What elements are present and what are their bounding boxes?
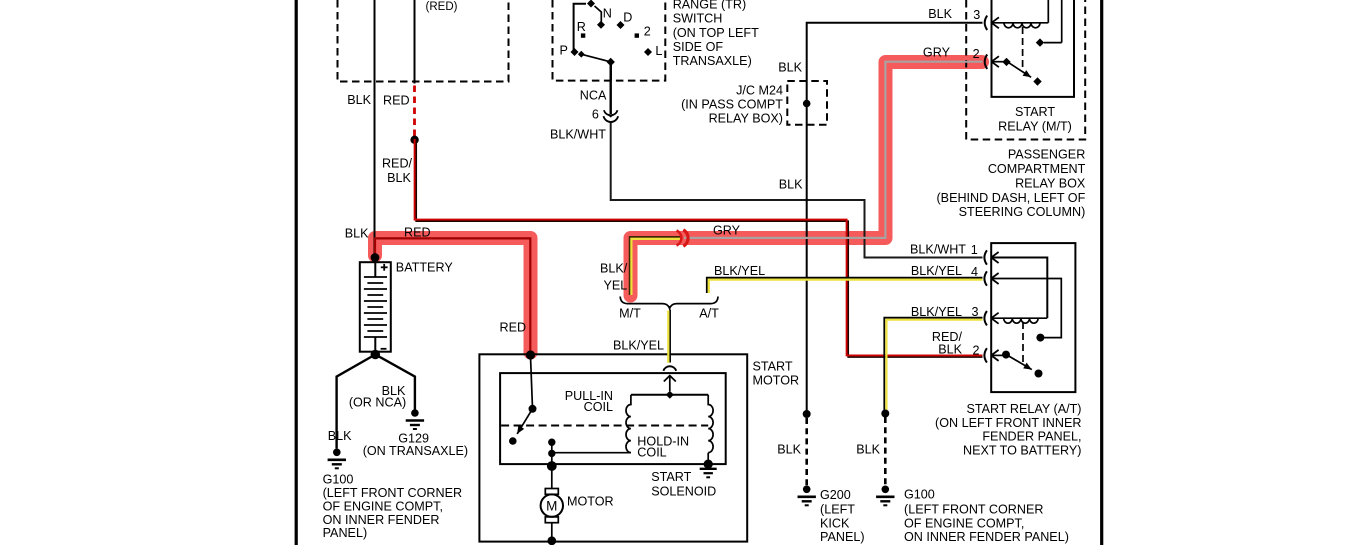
svg-text:RED/: RED/ [382,157,413,171]
svg-text:(ON LEFT FRONT INNER: (ON LEFT FRONT INNER [935,416,1081,430]
svg-text:G200: G200 [820,488,851,502]
svg-text:SOLENOID: SOLENOID [651,485,716,499]
svg-text:OF ENGINE COMPT,: OF ENGINE COMPT, [323,500,443,514]
svg-text:START RELAY (A/T): START RELAY (A/T) [966,402,1081,416]
svg-text:BLK: BLK [387,171,411,185]
svg-text:COMPARTMENT: COMPARTMENT [988,162,1086,176]
svg-text:YEL: YEL [604,279,628,293]
svg-text:R: R [577,20,586,34]
svg-text:RED: RED [404,226,431,240]
svg-text:6: 6 [592,108,599,122]
svg-text:L: L [655,44,662,58]
svg-text:START: START [651,470,691,484]
svg-text:START: START [753,360,793,374]
svg-text:A/T: A/T [699,307,719,321]
svg-text:ON INNER FENDER PANEL): ON INNER FENDER PANEL) [904,530,1069,544]
svg-text:BLK/WHT: BLK/WHT [910,243,966,257]
svg-text:STEERING COLUMN): STEERING COLUMN) [959,205,1086,219]
svg-text:(RED): (RED) [426,1,458,13]
svg-text:ON INNER FENDER: ON INNER FENDER [323,513,440,527]
svg-text:1: 1 [971,243,978,257]
svg-text:FENDER PANEL,: FENDER PANEL, [982,430,1081,444]
svg-text:4: 4 [971,265,978,279]
svg-text:G100: G100 [904,488,935,502]
svg-text:SWITCH: SWITCH [673,12,723,26]
svg-text:2: 2 [644,24,651,38]
svg-text:(IN PASS COMPT: (IN PASS COMPT [681,97,783,111]
svg-text:J/C M24: J/C M24 [736,84,783,98]
svg-text:(ON TOP LEFT: (ON TOP LEFT [673,26,759,40]
svg-text:TRANSAXLE): TRANSAXLE) [673,54,752,68]
svg-text:(LEFT: (LEFT [820,502,855,516]
svg-text:GRY: GRY [713,223,741,237]
svg-text:SIDE OF: SIDE OF [673,40,724,54]
svg-text:PASSENGER: PASSENGER [1008,148,1085,162]
svg-text:COIL: COIL [584,400,613,414]
svg-text:BLK: BLK [856,443,880,457]
svg-text:OF ENGINE COMPT,: OF ENGINE COMPT, [904,516,1024,530]
svg-text:GRY: GRY [923,46,951,60]
svg-text:(ON TRANSAXLE): (ON TRANSAXLE) [363,444,468,458]
svg-text:BLK: BLK [928,7,952,21]
svg-text:RELAY BOX: RELAY BOX [1015,176,1086,190]
svg-text:BLK/YEL: BLK/YEL [714,264,765,278]
svg-text:BLK/YEL: BLK/YEL [613,339,664,353]
svg-text:RED: RED [500,321,527,335]
svg-text:(OR NCA): (OR NCA) [349,395,406,409]
svg-text:BLK: BLK [345,227,369,241]
svg-text:BLK: BLK [777,442,801,456]
svg-text:RELAY (M/T): RELAY (M/T) [998,120,1072,134]
svg-text:COIL: COIL [637,446,666,460]
svg-text:PANEL): PANEL) [323,526,368,540]
svg-text:G100: G100 [323,473,354,487]
svg-text:BLK: BLK [778,60,802,74]
svg-text:3: 3 [973,8,980,22]
svg-text:3: 3 [972,305,979,319]
svg-text:M: M [546,498,557,513]
svg-text:MOTOR: MOTOR [567,494,614,508]
svg-text:BLK: BLK [779,178,803,192]
svg-text:(LEFT FRONT CORNER: (LEFT FRONT CORNER [904,502,1043,516]
svg-text:NCA: NCA [580,89,607,103]
svg-text:BATTERY: BATTERY [396,260,454,274]
svg-text:RANGE (TR): RANGE (TR) [673,0,746,12]
svg-text:D: D [623,11,632,25]
svg-text:BLK/YEL: BLK/YEL [911,305,962,319]
svg-text:KICK: KICK [820,516,850,530]
svg-text:BLK/WHT: BLK/WHT [550,127,606,141]
svg-text:PANEL): PANEL) [820,530,865,544]
svg-text:2: 2 [973,47,980,61]
svg-text:(LEFT FRONT CORNER: (LEFT FRONT CORNER [323,486,462,500]
svg-text:BLK/YEL: BLK/YEL [911,264,962,278]
svg-text:BLK: BLK [938,343,962,357]
svg-text:M/T: M/T [619,307,641,321]
svg-text:BLK/: BLK/ [600,262,628,276]
svg-text:NEXT TO BATTERY): NEXT TO BATTERY) [963,443,1082,457]
svg-text:START: START [1015,105,1055,119]
svg-text:2: 2 [973,343,980,357]
svg-text:(BEHIND DASH, LEFT OF: (BEHIND DASH, LEFT OF [936,191,1085,205]
svg-text:RELAY BOX): RELAY BOX) [709,111,783,125]
svg-text:MOTOR: MOTOR [753,374,800,388]
svg-text:BLK: BLK [347,93,371,107]
svg-text:P: P [560,44,568,58]
svg-text:N: N [603,7,612,21]
svg-text:RED: RED [383,94,410,108]
svg-text:BLK: BLK [328,429,352,443]
